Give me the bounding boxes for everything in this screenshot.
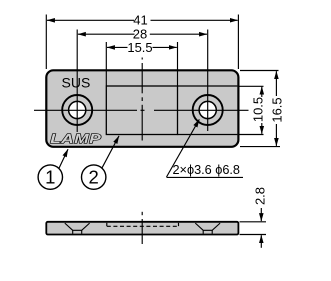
svg-text:41: 41: [133, 13, 147, 28]
svg-text:16.5: 16.5: [269, 97, 284, 122]
svg-text:15.5: 15.5: [127, 40, 152, 55]
svg-text:2×ϕ3.6 ϕ6.8: 2×ϕ3.6 ϕ6.8: [173, 163, 240, 177]
svg-text:10.5: 10.5: [250, 97, 265, 122]
svg-text:2.8: 2.8: [253, 187, 268, 205]
svg-text:SUS: SUS: [62, 74, 91, 90]
svg-text:LAMP: LAMP: [50, 132, 101, 147]
svg-text:2: 2: [89, 166, 99, 187]
svg-text:1: 1: [45, 166, 55, 187]
